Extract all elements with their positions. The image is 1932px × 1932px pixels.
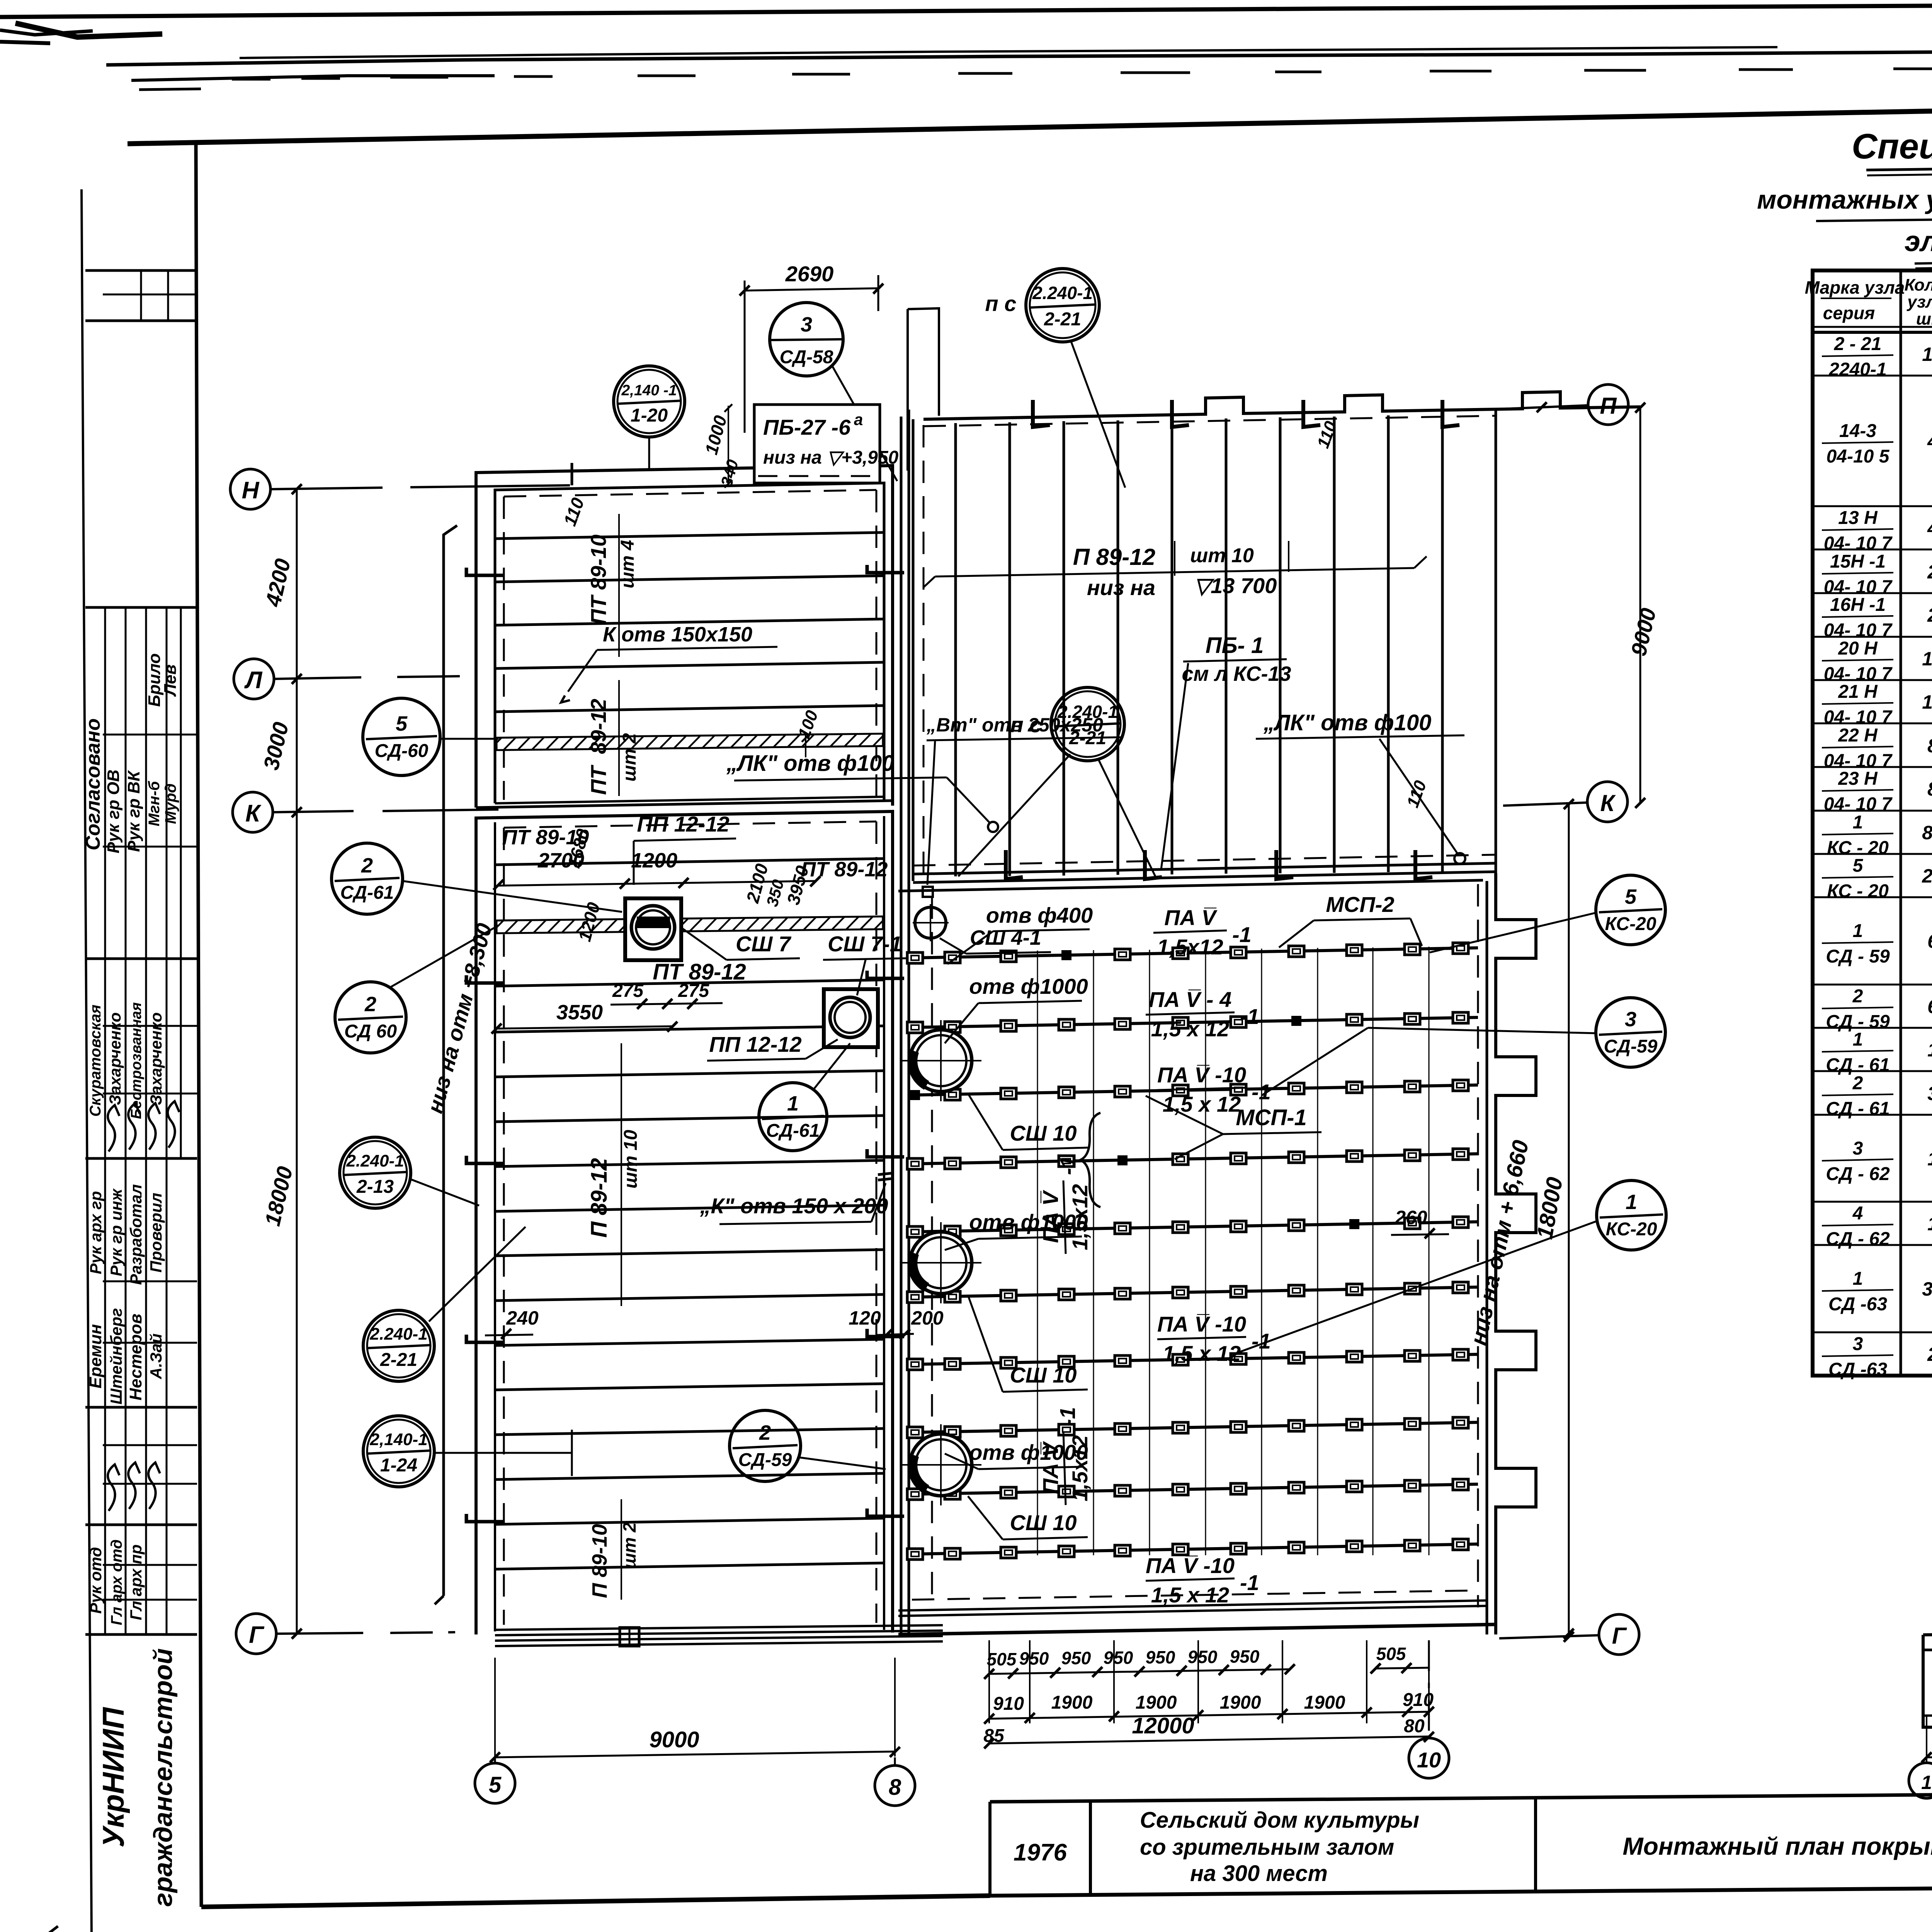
svg-text:шт 10: шт 10 xyxy=(621,1130,641,1189)
svg-text:2.240-1: 2.240-1 xyxy=(346,1151,404,1170)
svg-text:1,5 х 12: 1,5 х 12 xyxy=(1151,1017,1229,1041)
svg-text:КС-20: КС-20 xyxy=(1606,1219,1657,1240)
svg-text:Штейнберг: Штейнберг xyxy=(107,1308,125,1405)
label отв ф400 xyxy=(947,903,1093,964)
vertical joint lines lower right xyxy=(1037,947,1429,1555)
svg-text:ПП 12-12: ПП 12-12 xyxy=(709,1032,801,1056)
svg-text:1: 1 xyxy=(1853,1269,1863,1289)
axis circle 5 xyxy=(475,1757,515,1803)
svg-text:20: 20 xyxy=(1922,865,1932,887)
svg-text:шт: шт xyxy=(1916,310,1932,328)
svg-text:2: 2 xyxy=(1852,1073,1863,1094)
svg-text:89-12: 89-12 xyxy=(586,699,611,754)
svg-text:Г: Г xyxy=(1612,1623,1628,1649)
svg-text:А.Зай: А.Зай xyxy=(147,1333,165,1379)
svg-text:Л: Л xyxy=(244,667,263,694)
svg-text:Г: Г xyxy=(249,1622,265,1648)
svg-text:2: 2 xyxy=(1927,1344,1932,1365)
svg-text:СД-61: СД-61 xyxy=(340,883,394,903)
svg-text:950: 950 xyxy=(1104,1648,1133,1668)
svg-text:СШ 7: СШ 7 xyxy=(736,932,792,956)
sheet frame: left outer margin line xyxy=(82,189,92,1932)
axis line Л xyxy=(274,676,460,679)
svg-text:Монтажный план покрытия: Монтажный план покрытия в осях „Г"-„П" xyxy=(1622,1832,1932,1860)
svg-text:2: 2 xyxy=(1927,561,1932,583)
label СШ 7-1 xyxy=(823,932,906,995)
svg-text:04- 10 7: 04- 10 7 xyxy=(1824,707,1893,728)
dim line 9000 bottom xyxy=(490,1658,900,1762)
svg-text:ПТ 89-10: ПТ 89-10 xyxy=(586,534,611,624)
svg-text:п с: п с xyxy=(985,291,1017,316)
rotated 110 marks right block xyxy=(1313,418,1430,810)
table 1 header text xyxy=(1805,272,1932,329)
svg-text:УкрНИИП: УкрНИИП xyxy=(96,1707,130,1848)
fraction label ПАУ-10 1,5x12 -1 c xyxy=(1157,1312,1271,1366)
svg-text:13: 13 xyxy=(1922,648,1932,670)
svg-text:3550: 3550 xyxy=(556,1001,603,1024)
label К отв 150x150 xyxy=(561,623,777,702)
svg-text:-1: -1 xyxy=(1055,1407,1080,1426)
right block upper: top wall with pilaster bumps xyxy=(923,392,1640,419)
svg-text:серия: серия xyxy=(1823,303,1875,323)
label ЛК отв ф100 right xyxy=(1256,710,1465,864)
svg-text:„ЛК" отв ф100: „ЛК" отв ф100 xyxy=(726,751,894,776)
big opening circles отв ф1000 xyxy=(900,1020,981,1505)
rotated fraction ПАУ 1,5x12 -1 d xyxy=(1038,1407,1092,1505)
svg-text:Рук гр инж: Рук гр инж xyxy=(107,1188,125,1276)
left vertical dimension line xyxy=(292,484,302,1639)
svg-text:Гл арх отд: Гл арх отд xyxy=(108,1539,125,1625)
svg-text:910: 910 xyxy=(993,1694,1024,1714)
svg-text:2690: 2690 xyxy=(785,262,834,286)
svg-text:04- 10 7: 04- 10 7 xyxy=(1824,620,1893,641)
svg-text:505: 505 xyxy=(1376,1644,1406,1664)
svg-text:1,5х12: 1,5х12 xyxy=(1157,935,1223,959)
svg-text:Сельский дом культуры: Сельский дом культуры xyxy=(1140,1808,1419,1833)
svg-text:ПА V̅ - 4: ПА V̅ - 4 xyxy=(1149,987,1232,1012)
rotated fraction ПАУ 1,5x12 -1 b xyxy=(1038,1156,1092,1254)
svg-text:1-24: 1-24 xyxy=(380,1455,417,1476)
title stamp left column: section dividers xyxy=(85,270,197,1634)
svg-text:2700: 2700 xyxy=(537,849,584,872)
svg-text:4: 4 xyxy=(1852,1203,1863,1224)
svg-text:1200: 1200 xyxy=(631,849,677,872)
svg-text:низ на ▽+3,950: низ на ▽+3,950 xyxy=(763,447,899,468)
panel anchor hooks lower left block xyxy=(466,971,904,1522)
label ПБ-1 см л КС-13 xyxy=(1161,633,1291,869)
right block upper: vertical panel lines xyxy=(956,415,1442,876)
svg-text:16: 16 xyxy=(1922,344,1932,365)
rotated label ПТ 89-10 шт 4 xyxy=(586,514,638,657)
svg-text:со зрительным залом: со зрительным залом xyxy=(1140,1835,1394,1860)
svg-text:СД-60: СД-60 xyxy=(375,741,429,761)
svg-text:1: 1 xyxy=(1853,812,1863,833)
callout 3/СД-58 xyxy=(770,303,897,481)
callout 2.240-1/2-21 upper right block xyxy=(958,687,1155,876)
fraction label ПАУ-10 1,5x12 -1 e xyxy=(1146,1553,1259,1607)
svg-text:П 89-12: П 89-12 xyxy=(1073,544,1155,570)
right vertical dim 9000 xyxy=(1626,403,1660,808)
svg-text:1: 1 xyxy=(1626,1190,1637,1214)
svg-text:Рук отд: Рук отд xyxy=(87,1547,105,1614)
bracket label П 89-12 шт 10 низ на 13700 xyxy=(923,541,1427,600)
dim 275 275 xyxy=(611,981,723,1009)
svg-text:СД-59: СД-59 xyxy=(738,1450,792,1470)
box ПБ-27-6а xyxy=(754,405,899,483)
svg-text:2: 2 xyxy=(759,1421,771,1444)
rotated label ПТ 89-12 шт 2 xyxy=(586,680,640,796)
stamp text: approvers group 1 xyxy=(104,653,180,854)
right block lower bottom lines xyxy=(898,1590,1487,1616)
fraction label ПАУ-4 1,5x12 -1 xyxy=(1146,987,1259,1041)
sheet frame: left inner border xyxy=(196,144,201,1907)
label СШ 4-1 xyxy=(940,926,1051,954)
svg-text:240: 240 xyxy=(506,1307,539,1329)
svg-text:14-3: 14-3 xyxy=(1839,421,1876,441)
svg-text:Бестрозванная: Бестрозванная xyxy=(128,1002,145,1119)
svg-text:16Н -1: 16Н -1 xyxy=(1830,595,1886,615)
svg-text:1900: 1900 xyxy=(1136,1692,1177,1713)
svg-text:шт 4: шт 4 xyxy=(617,540,638,588)
svg-text:отв ф400: отв ф400 xyxy=(986,903,1093,927)
svg-text:Кол-во: Кол-во xyxy=(1905,276,1932,294)
svg-text:Проверил: Проверил xyxy=(147,1193,165,1273)
left block top edge panel ticks xyxy=(572,459,846,485)
svg-text:6: 6 xyxy=(1927,930,1932,952)
dim 260 right xyxy=(1391,1207,1449,1238)
svg-text:П 89-10: П 89-10 xyxy=(588,1524,611,1598)
right block upper: outline xyxy=(913,408,1496,881)
svg-text:260: 260 xyxy=(1395,1207,1427,1228)
panel anchor hooks top row xyxy=(1006,400,1459,879)
svg-text:120: 120 xyxy=(849,1307,881,1329)
dim 3550 xyxy=(492,1001,677,1034)
title stamp: internal vertical lines xyxy=(105,607,181,1634)
sheet frame: top border xyxy=(128,97,1932,144)
svg-text:-1: -1 xyxy=(1232,922,1252,947)
axis circle Г right xyxy=(1499,1614,1639,1655)
svg-text:Согласовано: Согласовано xyxy=(82,718,104,850)
svg-text:04-10 5: 04-10 5 xyxy=(1827,446,1890,467)
label ПП 12-12 upper xyxy=(634,812,736,885)
svg-text:04- 10 7: 04- 10 7 xyxy=(1824,794,1893,815)
svg-text:2-21: 2-21 xyxy=(1044,309,1081,330)
svg-text:2.240-1: 2.240-1 xyxy=(1032,283,1093,303)
svg-text:80: 80 xyxy=(1404,1716,1425,1736)
labels отв ф1000 with leaders xyxy=(945,974,1088,1469)
axis circle Л xyxy=(234,659,274,699)
label МСП-1 with bracket xyxy=(1080,1096,1321,1207)
svg-text:ПА V̅: ПА V̅ xyxy=(1038,1190,1063,1243)
axis circle К right xyxy=(1503,782,1628,822)
svg-text:3: 3 xyxy=(1927,1083,1932,1104)
scan artifact: second band lines xyxy=(106,46,1932,90)
svg-text:5: 5 xyxy=(1853,855,1864,876)
axis line К xyxy=(273,810,498,812)
svg-text:СД-61: СД-61 xyxy=(766,1121,820,1141)
svg-text:950: 950 xyxy=(1188,1647,1218,1667)
svg-text:см л КС-13: см л КС-13 xyxy=(1182,662,1291,685)
building outer wall left xyxy=(435,526,457,1604)
svg-text:1: 1 xyxy=(787,1092,799,1115)
svg-text:ПБ- 1: ПБ- 1 xyxy=(1206,633,1264,658)
svg-text:1,5х12: 1,5х12 xyxy=(1068,1435,1092,1501)
opening СШ7-1 square with circle xyxy=(824,989,878,1047)
right wall with pilaster bumps xyxy=(1496,873,1536,1634)
svg-text:К отв 150х150: К отв 150х150 xyxy=(603,623,752,646)
svg-text:Рук гр ВК: Рук гр ВК xyxy=(124,770,143,852)
svg-text:5: 5 xyxy=(489,1772,502,1798)
svg-text:низ на: низ на xyxy=(1087,575,1155,600)
svg-text:505: 505 xyxy=(987,1649,1017,1669)
svg-text:Рук гр ОВ: Рук гр ОВ xyxy=(104,770,123,854)
svg-text:▽13 700: ▽13 700 xyxy=(1194,573,1277,598)
svg-text:1: 1 xyxy=(1921,1772,1932,1793)
scheme axis А xyxy=(1923,1698,1932,1734)
svg-text:8: 8 xyxy=(1927,735,1932,757)
svg-text:2: 2 xyxy=(1852,986,1863,1007)
left block inner rectangle upper section xyxy=(495,483,884,803)
svg-text:1: 1 xyxy=(1853,1029,1863,1050)
svg-text:1,5 х 12: 1,5 х 12 xyxy=(1163,1341,1241,1366)
svg-text:шт 2: шт 2 xyxy=(619,733,640,782)
svg-text:22 Н: 22 Н xyxy=(1838,725,1878,746)
svg-text:6: 6 xyxy=(1927,996,1932,1017)
stamp signatures scribbles xyxy=(108,1101,179,1511)
callout 5/СД-60 xyxy=(363,698,498,776)
svg-text:СШ 10: СШ 10 xyxy=(1010,1363,1077,1387)
svg-text:ПА V̅ -10: ПА V̅ -10 xyxy=(1157,1063,1246,1087)
svg-text:3: 3 xyxy=(1625,1008,1636,1031)
axis line Н xyxy=(270,485,570,489)
svg-text:1-20: 1-20 xyxy=(631,405,668,426)
svg-text:шт 10: шт 10 xyxy=(1190,544,1254,567)
svg-text:К: К xyxy=(245,800,262,827)
callout 5/КС-20 xyxy=(1430,875,1665,952)
svg-text:1976: 1976 xyxy=(1014,1839,1067,1866)
fraction label ПАУ-10 1,5x12 -1 a xyxy=(1157,1063,1271,1116)
svg-text:3: 3 xyxy=(1853,1138,1863,1159)
svg-text:1: 1 xyxy=(1927,1039,1932,1061)
svg-text:СШ 10: СШ 10 xyxy=(1010,1121,1077,1145)
svg-text:2-21: 2-21 xyxy=(380,1350,417,1370)
svg-text:04- 10 7: 04- 10 7 xyxy=(1824,533,1893,554)
axis circle Г left xyxy=(236,1614,276,1654)
svg-text:Гл арх пр: Гл арх пр xyxy=(127,1544,145,1620)
svg-text:П: П xyxy=(1600,393,1617,419)
svg-text:1,5 х 12: 1,5 х 12 xyxy=(1163,1092,1241,1116)
svg-text:шт 2: шт 2 xyxy=(619,1522,639,1569)
svg-text:СД - 59: СД - 59 xyxy=(1826,946,1890,967)
small circle СШ4-1 top left xyxy=(913,904,949,941)
left block bottom multi-line bundle xyxy=(495,1625,943,1646)
svg-text:200: 200 xyxy=(911,1307,944,1329)
svg-text:К: К xyxy=(1600,790,1616,816)
panel anchor hooks upper left edge xyxy=(466,565,904,575)
rotated dim 18000 right xyxy=(1532,803,1574,1639)
svg-text:1900: 1900 xyxy=(1220,1692,1261,1713)
svg-text:Еремин: Еремин xyxy=(86,1324,105,1389)
stamp text: roles group 3 xyxy=(86,1184,165,1405)
svg-text:ПТ 89-12: ПТ 89-12 xyxy=(801,858,888,881)
svg-text:ПБ-27 -6: ПБ-27 -6 xyxy=(763,415,851,439)
left block upper panel joint lines xyxy=(495,532,884,712)
svg-text:КС - 20: КС - 20 xyxy=(1827,881,1889,901)
svg-text:4: 4 xyxy=(1927,517,1932,539)
right block lower outline xyxy=(898,880,1487,1634)
svg-text:16: 16 xyxy=(1922,691,1932,713)
fraction label ПАУ 1,5x12 -1 row1 xyxy=(1153,905,1252,959)
svg-text:отв ф1000: отв ф1000 xyxy=(969,974,1088,998)
svg-text:9000: 9000 xyxy=(649,1727,699,1752)
svg-text:Спецификация: Спецификация xyxy=(1852,127,1932,166)
svg-text:П 89-12: П 89-12 xyxy=(587,1158,612,1238)
svg-text:950: 950 xyxy=(1061,1648,1091,1668)
right block upper: bottom double line xyxy=(913,855,1496,883)
axis circle Н xyxy=(230,469,270,509)
svg-text:монтажных узлов и соединитель: монтажных узлов и соединительных xyxy=(1757,185,1932,214)
svg-text:СШ 7-1: СШ 7-1 xyxy=(828,932,902,956)
svg-text:ПП 12-12: ПП 12-12 xyxy=(637,812,729,836)
svg-text:Нестеров: Нестеров xyxy=(126,1314,145,1401)
table 1 frame xyxy=(1813,270,1932,1376)
svg-text:2 - 21: 2 - 21 xyxy=(1834,334,1882,354)
svg-text:2: 2 xyxy=(361,854,373,877)
dim 2690 with risers xyxy=(740,262,939,471)
svg-text:8: 8 xyxy=(889,1775,901,1800)
svg-text:20 Н: 20 Н xyxy=(1838,638,1878,659)
dim row 2700 / 1200 xyxy=(493,849,820,890)
svg-text:3: 3 xyxy=(1853,1334,1863,1354)
svg-text:Захарченко: Захарченко xyxy=(106,1012,124,1105)
bottom small dims row 505/950 xyxy=(984,1644,1430,1679)
bottom wall on axis Г xyxy=(898,1624,1496,1634)
svg-text:275: 275 xyxy=(612,981,644,1001)
svg-text:СД-59: СД-59 xyxy=(1604,1036,1658,1057)
axis line Г left xyxy=(276,1632,460,1634)
callout 2/СД 60 xyxy=(335,925,498,1053)
hatched strip 1 (left block) xyxy=(497,734,883,750)
left block upper section bottom double line xyxy=(476,797,893,808)
label К отв 150x200 xyxy=(699,1173,893,1224)
rotated label П 89-10 шт 2 xyxy=(588,1499,639,1600)
table 1 data rows xyxy=(1813,334,1932,1380)
callout 2.140-1/1-24 xyxy=(363,1416,572,1487)
svg-text:СД - 61: СД - 61 xyxy=(1826,1099,1889,1119)
svg-text:элементов: элементов xyxy=(1905,225,1932,257)
svg-text:ПА V̅ -10: ПА V̅ -10 xyxy=(1146,1553,1235,1578)
scheme dim 39000 xyxy=(1922,1650,1932,1762)
dim 100 tick above hatch xyxy=(794,708,822,757)
svg-text:5: 5 xyxy=(396,712,408,735)
callout 2/СД-59 lower xyxy=(730,1410,886,1481)
scan artifact: top edge line xyxy=(0,2,1932,43)
scheme lower building outline xyxy=(1923,1634,1932,1727)
svg-text:СД - 62: СД - 62 xyxy=(1826,1164,1890,1184)
svg-text:-1: -1 xyxy=(1240,1570,1259,1595)
svg-text:„Вт" отв 250х250: „Вт" отв 250х250 xyxy=(926,714,1103,736)
bottom dims row 910/1900 xyxy=(983,1690,1434,1746)
sheet frame: bottom border xyxy=(201,1896,990,1907)
axis circle 8 xyxy=(875,1757,915,1806)
svg-text:Разработал: Разработал xyxy=(127,1184,145,1285)
svg-text:3: 3 xyxy=(801,313,812,336)
scheme axis circle 1 xyxy=(1909,1763,1932,1798)
scan artifact: dashed strips under band xyxy=(232,68,1932,79)
label Вт отв 250x250 xyxy=(923,714,1121,897)
svg-text:ПТ: ПТ xyxy=(586,764,611,795)
riser lines from plan to dim rows xyxy=(989,1640,1429,1723)
svg-text:СД -63: СД -63 xyxy=(1828,1294,1887,1315)
opening СШ7 square with circle xyxy=(625,898,681,960)
svg-text:СШ 10: СШ 10 xyxy=(1010,1510,1077,1535)
callout 2/СД-61 xyxy=(332,843,622,914)
svg-text:1900: 1900 xyxy=(1051,1692,1093,1713)
hatched strip 2 (left block) xyxy=(497,917,883,933)
axis circle К xyxy=(233,792,273,832)
svg-text:Рук арх гр: Рук арх гр xyxy=(87,1191,105,1274)
svg-text:15Н -1: 15Н -1 xyxy=(1830,551,1886,572)
callout 1/СД-61 mid xyxy=(759,1043,850,1151)
label МСП-2 with leaders xyxy=(1279,892,1422,947)
connector rows with plates xyxy=(912,948,1478,1554)
svg-text:8: 8 xyxy=(1927,778,1932,800)
svg-text:МСП-1: МСП-1 xyxy=(1236,1105,1307,1130)
stamp text: organisation name xyxy=(96,1648,178,1907)
middle wall double vertical line xyxy=(901,410,909,1634)
svg-text:Скуратовская: Скуратовская xyxy=(87,1005,104,1117)
callout 1/КС-20 xyxy=(1238,1180,1666,1352)
svg-text:ПА V̅: ПА V̅ xyxy=(1164,905,1218,930)
svg-text:СД-58: СД-58 xyxy=(780,347,833,367)
svg-text:950: 950 xyxy=(1230,1646,1260,1667)
stamp text: roles group 4 xyxy=(87,1539,145,1625)
dim line 12000 bottom xyxy=(984,1713,1434,1748)
label ПП 12-12 lower xyxy=(707,1032,838,1061)
svg-text:13 Н: 13 Н xyxy=(1838,508,1878,528)
svg-text:1,5х12: 1,5х12 xyxy=(1068,1184,1092,1250)
svg-text:узлов: узлов xyxy=(1906,293,1932,311)
svg-text:Мурд: Мурд xyxy=(162,783,179,824)
svg-text:2: 2 xyxy=(364,993,376,1016)
label СШ 7 xyxy=(681,927,800,960)
svg-text:1: 1 xyxy=(1927,1148,1932,1170)
rotated label П 89-12 шт 10 xyxy=(587,1043,641,1306)
svg-text:СД - 62: СД - 62 xyxy=(1826,1229,1890,1249)
svg-text:Лев: Лев xyxy=(161,664,180,697)
stamp text: names group 2 xyxy=(87,1002,165,1119)
dim 240 xyxy=(485,1307,539,1339)
svg-text:СД -63: СД -63 xyxy=(1828,1359,1887,1380)
svg-text:23 Н: 23 Н xyxy=(1838,769,1878,789)
rotated dims 1000 and 340 xyxy=(701,404,742,488)
svg-text:21 Н: 21 Н xyxy=(1838,682,1878,702)
svg-text:2240-1: 2240-1 xyxy=(1828,359,1886,380)
dim 120 200 right xyxy=(849,1307,944,1340)
svg-text:СД - 61: СД - 61 xyxy=(1826,1055,1889,1075)
left block lower panel joint lines xyxy=(495,859,884,1569)
rotated dims 2100 350 3950 xyxy=(742,861,813,908)
svg-text:1900: 1900 xyxy=(1304,1692,1345,1713)
svg-text:-1: -1 xyxy=(1240,1004,1259,1029)
svg-text:СД 60: СД 60 xyxy=(344,1021,397,1042)
svg-text:1: 1 xyxy=(1927,1213,1932,1235)
svg-text:2,140-1: 2,140-1 xyxy=(369,1430,427,1449)
table 1 title xyxy=(1757,127,1932,268)
svg-text:ПА V̅ -10: ПА V̅ -10 xyxy=(1157,1312,1246,1336)
left block outer rectangle xyxy=(476,466,893,808)
svg-text:10: 10 xyxy=(1417,1748,1441,1772)
